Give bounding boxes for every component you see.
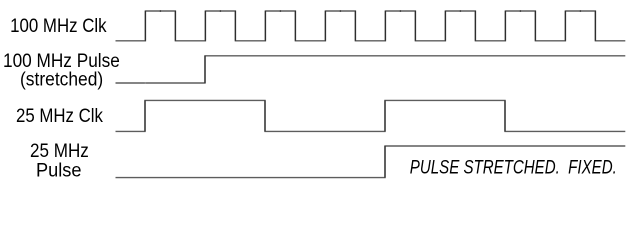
wire: 100 MHz stretched pulse waveform [116,56,626,83]
wire: stretched pulse rising edge [204,56,206,83]
wire: 25 MHz clock vertical edges [145,100,505,131]
wire: 25 MHz pulse waveform [116,146,626,178]
svg-text:Pulse: Pulse [36,159,82,181]
svg-text:25 MHz Clk: 25 MHz Clk [16,105,103,127]
svg-text:(stretched): (stretched) [20,69,103,91]
wire: 25 MHz pulse rising edge [384,146,386,178]
wire: 100 MHz clock vertical edges [145,11,595,41]
wire: 25 MHz clock waveform [116,100,626,131]
node dot: vertex on stretched-pulse low segment [145,82,146,83]
svg-text:100 MHz Clk: 100 MHz Clk [10,15,107,37]
node dots: midpoints on 100 MHz clock pulse tops [160,10,582,12]
svg-text:PULSE STRETCHED. FIXED.: PULSE STRETCHED. FIXED. [410,157,617,179]
wire: 100 MHz clock waveform [116,11,626,41]
